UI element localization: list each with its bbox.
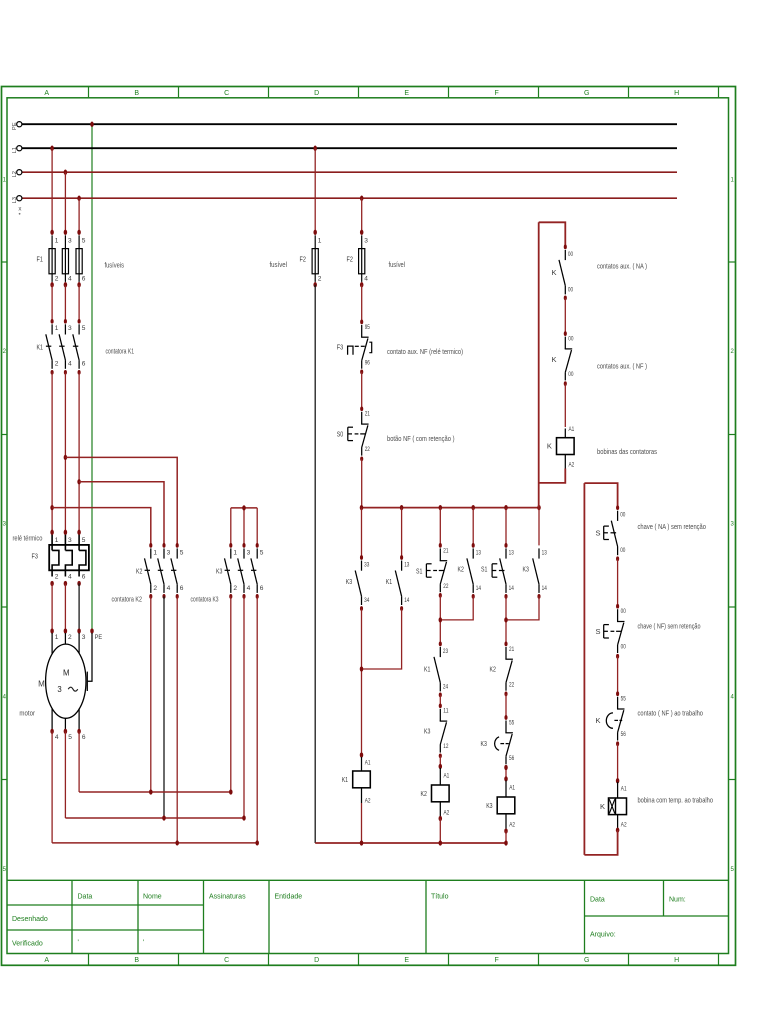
svg-text:E: E [404, 90, 409, 97]
fuse F1 pole1 pins 1-2 [50, 230, 54, 235]
svg-text:5: 5 [180, 549, 184, 556]
svg-text:K3: K3 [523, 564, 529, 573]
svg-text:11: 11 [443, 708, 448, 715]
contact K NF legend 00-00 [564, 331, 567, 336]
wire K3 pole2 to node B [243, 596, 245, 818]
wire 12 to K2 coil [439, 756, 441, 767]
fuse F1 pole2 pins 3-4 [64, 230, 68, 235]
motor PE conductor [88, 633, 92, 681]
wire legend1 mid [564, 298, 566, 334]
terminal L2 [17, 170, 22, 175]
svg-text:A1: A1 [621, 785, 627, 792]
svg-text:A2: A2 [509, 821, 515, 828]
wire L3 to F1 pole3 [78, 198, 80, 232]
timed NC contact 55-56 legend [616, 691, 619, 696]
svg-text:2: 2 [68, 634, 72, 641]
wire K1 coil to bottom rail [361, 803, 363, 843]
svg-text:G: G [584, 957, 589, 964]
wire motor 5 down [64, 731, 66, 818]
svg-text:A2: A2 [365, 797, 371, 804]
svg-text:A1: A1 [365, 759, 371, 766]
wire F3 pole1 to motor [51, 584, 53, 632]
wire PE drop (green) [91, 124, 93, 631]
svg-text:fusíveis: fusíveis [105, 261, 125, 270]
svg-text:56: 56 [621, 731, 626, 738]
svg-text:2: 2 [55, 276, 59, 283]
svg-text:F2: F2 [300, 255, 306, 264]
junction branch join 5-6 [504, 617, 508, 622]
svg-text:Num:: Num: [669, 897, 686, 904]
svg-text:S1: S1 [416, 566, 422, 575]
wire node C horizontal [52, 842, 257, 844]
bus L2 wire [22, 171, 677, 173]
svg-text:Data: Data [78, 894, 93, 901]
svg-text:1: 1 [55, 537, 59, 544]
svg-text:K2: K2 [136, 566, 142, 575]
svg-text:K: K [551, 355, 556, 364]
svg-text:chave ( NF) sem retenção: chave ( NF) sem retenção [638, 622, 701, 631]
thermal relay F3 box [49, 545, 89, 570]
contactor K3 pole1 contact 1-2 [229, 543, 232, 548]
svg-text:C: C [224, 90, 229, 97]
control bottom rail [315, 842, 506, 844]
svg-text:21: 21 [365, 411, 370, 418]
contact K2 aux 21-22 (NC) [504, 642, 507, 647]
bus L3 wire [22, 197, 677, 199]
thermal relay F3 heater elements [52, 535, 86, 577]
svg-text:22: 22 [365, 446, 370, 453]
svg-text:K2: K2 [421, 789, 427, 798]
wire K3 pole3 to node C [256, 596, 258, 843]
svg-text:H: H [674, 90, 679, 97]
svg-text:K3: K3 [424, 727, 430, 736]
wire 22 to 55 [505, 694, 507, 718]
svg-text:F: F [495, 957, 499, 964]
svg-text:F3: F3 [32, 552, 38, 561]
svg-text:B: B [134, 90, 139, 97]
wire K1 pole3 down to F3 [78, 372, 80, 532]
wire K1 pole1 down to F3 [51, 372, 53, 532]
junction timed coil A1 [616, 778, 620, 783]
svg-text:A2: A2 [621, 821, 627, 828]
wire legend1 to coil [564, 384, 566, 427]
svg-text:55: 55 [509, 719, 514, 726]
control rail wire [362, 507, 540, 509]
junction K2 coil A2 [439, 816, 443, 821]
wire F3 aux to S0 [361, 372, 363, 409]
svg-text:contatora K2: contatora K2 [112, 594, 143, 603]
svg-text:S: S [595, 627, 600, 636]
svg-text:Entidade: Entidade [275, 894, 303, 901]
wire 24 to 11 [439, 695, 441, 706]
svg-text:Data: Data [590, 897, 605, 904]
svg-text:1: 1 [55, 238, 59, 245]
contact K3 aux 13-14 (NO) [538, 548, 540, 558]
svg-text:6: 6 [260, 585, 264, 592]
wire branch to K2 pole2 [79, 482, 164, 546]
svg-text:K1: K1 [37, 342, 43, 351]
chave NF button actuator [603, 625, 605, 638]
svg-text:K: K [551, 268, 556, 277]
contact K1 aux 13-14 (NO) [400, 555, 403, 560]
svg-text:K1: K1 [342, 775, 348, 784]
terminal L3 [17, 196, 22, 201]
contact K NA legend 00-00 [564, 245, 567, 250]
svg-text:14: 14 [509, 585, 514, 592]
svg-text:L1: L1 [12, 147, 18, 153]
svg-text:A2: A2 [444, 809, 450, 816]
contactor K3 pole2 contact 3-4 [242, 543, 245, 548]
junction node B [162, 815, 166, 820]
svg-text:K1: K1 [424, 664, 430, 673]
svg-text:fusível: fusível [389, 260, 406, 269]
svg-text:K3: K3 [346, 577, 352, 586]
svg-text:contatora K3: contatora K3 [191, 594, 219, 603]
legend1 feed wire [539, 222, 566, 247]
sheet inner frame [7, 98, 729, 954]
wire rail to K2 aux 13 [472, 508, 474, 546]
contact K3 aux 33-34 (NO) [360, 555, 363, 560]
svg-text:00: 00 [568, 251, 573, 258]
wire 34 node to K1 coil [360, 752, 364, 757]
svg-text:00: 00 [568, 371, 573, 378]
terminal L1 [17, 146, 22, 151]
svg-text:13: 13 [404, 561, 409, 568]
wire rail to K3 aux 33 [361, 508, 363, 558]
svg-text:S0: S0 [337, 430, 343, 439]
wire L2 to F1 pole2 [64, 172, 66, 232]
junction K2 coil A1 [439, 764, 443, 769]
svg-text:4: 4 [68, 276, 72, 283]
svg-text:13: 13 [476, 549, 481, 556]
svg-text:6: 6 [82, 276, 86, 283]
svg-text:Desenhado: Desenhado [12, 916, 48, 923]
svg-text:Arquivo:: Arquivo: [590, 932, 616, 939]
svg-text:contatos aux. ( NF ): contatos aux. ( NF ) [597, 361, 647, 370]
svg-text:4: 4 [167, 585, 171, 592]
svg-text:00: 00 [621, 644, 626, 651]
junction K1 pole1 branch to K2 [50, 505, 54, 510]
svg-text:contatos aux. ( NA ): contatos aux. ( NA ) [597, 261, 647, 270]
svg-text:12: 12 [443, 743, 448, 750]
svg-text:00: 00 [568, 336, 573, 343]
svg-text:F2: F2 [347, 255, 353, 264]
svg-text:3: 3 [68, 325, 72, 332]
wire K3 aux 34 down to seal junction [361, 609, 363, 756]
chave NF contact 00-00 [616, 604, 619, 609]
wire S1 NO 14 down [505, 596, 507, 644]
svg-text:6: 6 [180, 585, 184, 592]
svg-text:5: 5 [82, 537, 86, 544]
legend2 feed wire [584, 483, 617, 508]
motor terminal stubs [52, 633, 79, 654]
svg-text:Nome: Nome [143, 894, 162, 901]
wire S1 NC 22 down [439, 595, 441, 644]
junction bus L2 tap [64, 170, 68, 175]
svg-text:Título: Título [431, 894, 449, 901]
svg-text:2: 2 [318, 276, 322, 283]
svg-text:bobinas das contatoras: bobinas das contatoras [597, 447, 657, 456]
svg-text:A1: A1 [569, 426, 575, 433]
wire F1 to K1 poles [51, 285, 53, 322]
svg-text:1: 1 [153, 549, 157, 556]
svg-text:00: 00 [620, 547, 625, 554]
svg-text:E: E [404, 957, 409, 964]
junction branch join 3-4 [439, 617, 443, 622]
svg-text:M: M [63, 669, 70, 678]
svg-text:K3: K3 [486, 801, 492, 810]
contactor K2 pole3 contact 5-6 [176, 543, 179, 548]
svg-text:56: 56 [509, 755, 514, 762]
svg-text:F: F [495, 90, 499, 97]
motor bottom stubs [52, 709, 79, 730]
svg-text:5: 5 [68, 734, 72, 741]
svg-text:3: 3 [82, 634, 86, 641]
contact K3 aux 11-12 (NC) [439, 703, 442, 708]
wire motor 4 down [51, 731, 53, 843]
wire K1 pole2 down to F3 [64, 372, 66, 532]
wire K2 pole1 to node A [150, 596, 152, 792]
svg-text:5: 5 [82, 238, 86, 245]
svg-text:24: 24 [443, 683, 448, 690]
junction seal-in [360, 666, 364, 671]
control rail junctions [360, 505, 364, 510]
svg-text:A1: A1 [444, 773, 450, 780]
svg-text:relé térmico: relé térmico [13, 533, 43, 542]
svg-text:L2: L2 [12, 171, 18, 177]
svg-text:3: 3 [68, 537, 72, 544]
bus PE wire [22, 123, 677, 125]
chave NA button actuator [603, 526, 605, 539]
svg-text:2: 2 [55, 361, 59, 368]
svg-text:C: C [224, 957, 229, 964]
svg-text:21: 21 [509, 646, 514, 653]
svg-text:H: H [674, 957, 679, 964]
svg-text:F1: F1 [37, 255, 43, 264]
junction K3 coil A2 [504, 828, 508, 833]
contactor K1 pole2 contact 3-4 [64, 319, 67, 324]
fuse F2 pole1 pins 1-2 [313, 230, 317, 235]
wire rail to S1 NO [505, 508, 507, 546]
wire F2 to F3 aux contact [361, 285, 363, 322]
K3 timer arc and linkage [495, 737, 499, 750]
junction bus L1 taps [50, 146, 54, 151]
svg-text:4: 4 [247, 585, 251, 592]
svg-text:23: 23 [443, 648, 448, 655]
svg-text:00: 00 [621, 608, 626, 615]
svg-text:Verificado: Verificado [12, 941, 43, 948]
svg-text:14: 14 [404, 597, 409, 604]
wire K3 star bridge [231, 507, 257, 509]
wire F3 pole3 to motor (black) [78, 584, 80, 632]
svg-text:L3: L3 [12, 197, 18, 203]
svg-text:M: M [38, 680, 45, 689]
bottom rail junctions [360, 840, 364, 845]
wire K2 pole3 to node C [176, 596, 178, 843]
motor terminals 1 2 3 PE [50, 628, 54, 633]
thermal relay F3 aux NC contact 95-96 [360, 320, 363, 325]
wire F3 pole2 to motor [64, 584, 66, 632]
svg-text:K3: K3 [216, 566, 222, 575]
wire K3 aux 14 join [506, 596, 539, 620]
junction F3 top pins [50, 530, 54, 535]
svg-text:K1: K1 [386, 577, 392, 586]
contactor K2 pole2 contact 3-4 [162, 543, 165, 548]
svg-text:D: D [314, 90, 319, 97]
svg-text:Assinaturas: Assinaturas [209, 894, 246, 901]
wire L3 to F2 pole2 [361, 198, 363, 232]
F3 aux trip symbol and linkage [348, 346, 353, 355]
svg-text:S: S [595, 528, 600, 537]
title block grid [7, 880, 729, 953]
wire L1 to F1 pole1 [51, 148, 53, 232]
top column ruler [89, 87, 719, 98]
wire K3 coil to bottom rail [505, 831, 507, 843]
svg-text:6: 6 [82, 361, 86, 368]
svg-text:K: K [547, 442, 552, 451]
chave NA contact 00-00 [616, 505, 619, 510]
bus L1 wire [22, 147, 677, 149]
svg-text:motor: motor [19, 708, 35, 717]
pushbutton S0 NC contact 21-22 [360, 406, 363, 411]
fuse F2 pole2 pins 3-4 [360, 230, 364, 235]
junction K1 pole2 branch to K2 [64, 455, 68, 460]
svg-text:14: 14 [542, 585, 547, 592]
legend timer arc and linkage [606, 713, 613, 728]
svg-text:': ' [143, 940, 144, 947]
svg-text:13: 13 [509, 549, 514, 556]
svg-text:22: 22 [443, 583, 448, 590]
S1 NC button actuator [425, 564, 427, 577]
svg-text:A: A [44, 957, 49, 964]
pushbutton S1 NO contact 13-14 [504, 543, 507, 548]
wire legend2 mid2 [617, 656, 619, 694]
svg-text:95: 95 [365, 324, 370, 331]
wire legend1 coil return [539, 469, 566, 483]
wire node A horizontal [79, 791, 231, 793]
wire K1 aux 14 seal-in loop [362, 609, 402, 670]
junction K3 coil A1 [504, 765, 508, 770]
svg-text:A2: A2 [569, 461, 575, 468]
timed contact K3 55-56 (NC delayed) [504, 715, 507, 720]
contactor K1 pole1 contact 1-2 [51, 319, 54, 324]
junction bus PE / green tap [90, 122, 94, 127]
svg-text:6: 6 [82, 574, 86, 581]
svg-text:S1: S1 [481, 564, 487, 573]
wire legend2 mid1 [617, 559, 619, 607]
wire L1 to F2 pole1 [314, 148, 316, 232]
svg-text:3: 3 [57, 685, 61, 694]
svg-text:B: B [134, 957, 139, 964]
S0 button actuator [347, 427, 349, 440]
svg-text:G: G [584, 90, 589, 97]
junction node A [149, 789, 153, 794]
svg-text:1: 1 [55, 325, 59, 332]
wire K2 coil to bottom rail [439, 819, 441, 844]
svg-text:2: 2 [233, 585, 237, 592]
junction K1 pole3 branch to K2 [77, 479, 81, 484]
svg-text:contatora K1: contatora K1 [106, 346, 135, 355]
contactor K3 linkage dashes [225, 569, 257, 571]
F3 bottom pins [55, 574, 86, 581]
wire branch to K2 pole3 [65, 457, 177, 545]
svg-text:33: 33 [364, 561, 369, 568]
svg-text:': ' [78, 940, 79, 947]
contactor K2 linkage dashes [145, 569, 177, 571]
F3 aux stop bracket [369, 342, 371, 353]
side row rulers [2, 262, 736, 780]
svg-text:K2: K2 [458, 564, 464, 573]
wire node B horizontal [65, 817, 244, 819]
svg-text:22: 22 [509, 681, 514, 688]
contact K1 aux 23-24 (NO) [439, 642, 442, 647]
junction K3 bridge [242, 505, 246, 510]
title block labels [12, 894, 686, 948]
terminal PE [17, 122, 22, 127]
svg-text:botão NF ( com retenção ): botão NF ( com retenção ) [387, 434, 455, 443]
wire S0 to control rail [361, 459, 363, 508]
svg-text:2: 2 [153, 585, 157, 592]
svg-text:3: 3 [167, 549, 171, 556]
svg-text:chave ( NA ) sem retenção: chave ( NA ) sem retenção [638, 522, 707, 531]
svg-text:13: 13 [542, 549, 547, 556]
svg-text:1: 1 [233, 549, 237, 556]
wire neutral F2 to bottom rail (black) [314, 285, 316, 843]
contactor K1 pole3 contact 5-6 [78, 319, 81, 324]
svg-text:21: 21 [443, 547, 448, 554]
svg-text:contato aux. NF (relé termico): contato aux. NF (relé termico) [387, 347, 463, 356]
svg-text:K2: K2 [490, 664, 496, 673]
wire branch to K2 pole1 [52, 508, 151, 546]
svg-text:A1: A1 [509, 785, 515, 792]
svg-text:00: 00 [568, 286, 573, 293]
svg-text:F3: F3 [337, 342, 343, 351]
wire K3 pole1 to node A [230, 596, 232, 792]
svg-text:fusível: fusível [270, 260, 288, 269]
contactor K3 pole3 contact 5-6 [256, 543, 259, 548]
svg-text:3: 3 [247, 549, 251, 556]
svg-text:K: K [600, 802, 605, 811]
svg-text:34: 34 [364, 597, 369, 604]
svg-text:4: 4 [364, 276, 368, 283]
wire motor 6 down [78, 731, 80, 792]
wire rail to S1 NC [439, 508, 441, 546]
svg-text:3: 3 [364, 238, 368, 245]
pushbutton S1 NC contact 21-22 [439, 543, 442, 548]
svg-text:6: 6 [82, 734, 86, 741]
wire rail to K3 aux 13 [538, 508, 540, 546]
junction timed coil A2 [616, 827, 620, 832]
motor M1 body [46, 644, 86, 718]
svg-text:55: 55 [621, 696, 626, 703]
motor bottom terminals 4 5 6 [50, 729, 54, 734]
svg-text:4: 4 [55, 734, 59, 741]
svg-text:4: 4 [68, 574, 72, 581]
svg-text:bobina com temp. ao trabalho: bobina com temp. ao trabalho [638, 795, 714, 804]
junction bus L3 taps [77, 196, 81, 201]
svg-text:1: 1 [318, 238, 322, 245]
contactor K2 pole1 contact 1-2 [149, 543, 152, 548]
wire legend2 coil return [584, 830, 617, 855]
fuse F1 pole3 pins 5-6 [77, 230, 81, 235]
svg-text:D: D [314, 957, 319, 964]
svg-text:A: A [44, 90, 49, 97]
wire 56 to K3 coil [505, 768, 507, 779]
svg-text:3: 3 [68, 238, 72, 245]
svg-text:96: 96 [365, 359, 370, 366]
svg-text:5: 5 [260, 549, 264, 556]
svg-text:PE: PE [95, 634, 103, 641]
